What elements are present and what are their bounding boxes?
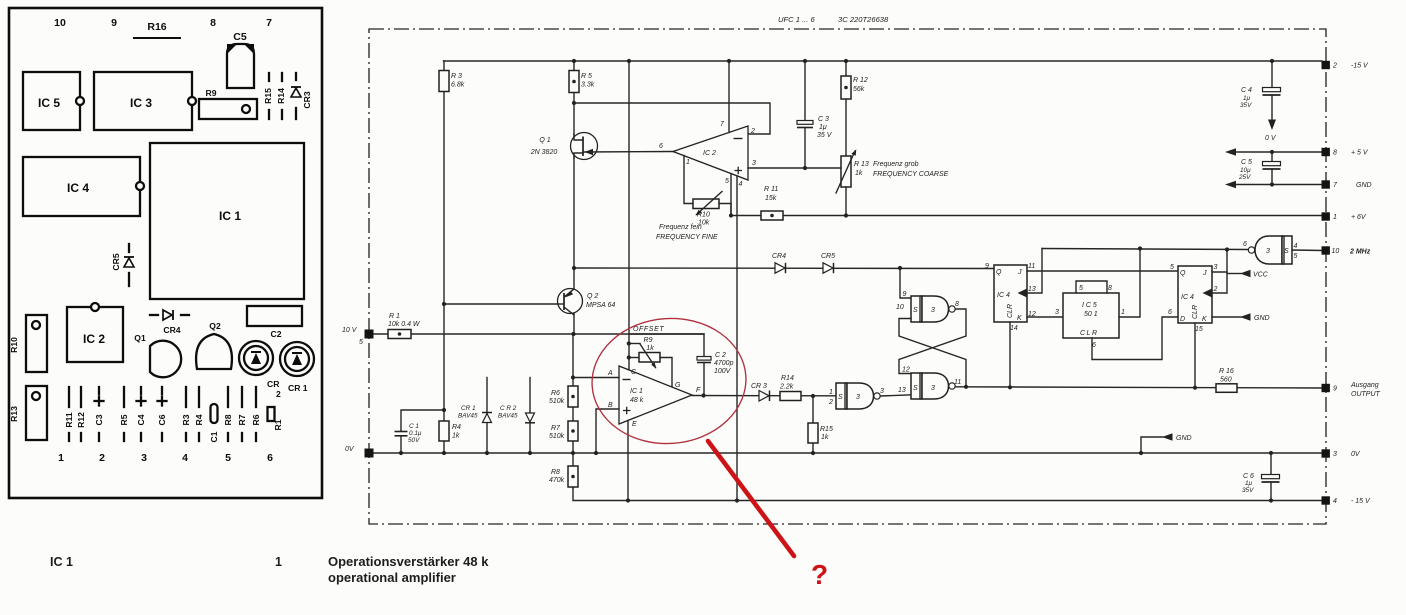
svg-text:Q: Q <box>1180 270 1186 277</box>
svg-text:CR 1: CR 1 <box>288 383 308 393</box>
resistor R10 footprint <box>26 315 47 372</box>
capacitor C4 1u 35V with 0V arrow <box>1271 61 1273 88</box>
junction node 0V / R7 / R8 <box>571 451 575 455</box>
resistor R15 1k <box>812 396 814 453</box>
resistor R14 (vertical silk) <box>281 73 283 81</box>
svg-text:OFFSET: OFFSET <box>633 326 664 333</box>
resistor R6 (vertical silk) <box>255 387 257 407</box>
wire E pin to bottom rail <box>627 421 629 501</box>
diode CR1 (round can) <box>280 342 314 376</box>
wire +5V (pin 8) with arrow <box>1236 151 1322 153</box>
wire Q2 base <box>444 303 562 305</box>
svg-text:IC 1: IC 1 <box>219 209 241 223</box>
diode CR3 <box>759 391 769 402</box>
wire 0V rail <box>369 452 1322 454</box>
svg-text:CR4: CR4 <box>163 325 180 335</box>
junction node Q2 base divider <box>442 302 446 306</box>
ground GND arrow (FF-right K) <box>1212 316 1241 318</box>
svg-text:?: ? <box>811 559 828 590</box>
svg-text:BAV45: BAV45 <box>498 413 518 420</box>
wire GND (pin 7) with arrow <box>1236 184 1322 186</box>
svg-text:2.2k: 2.2k <box>779 384 794 391</box>
svg-text:3.3k: 3.3k <box>581 82 595 89</box>
junction node R9 left <box>627 355 631 359</box>
svg-text:IC 1: IC 1 <box>630 388 643 395</box>
schematic frame (dash-dot border) <box>369 29 1326 524</box>
svg-text:CR 1: CR 1 <box>461 405 476 412</box>
svg-text:CLR: CLR <box>1007 304 1014 318</box>
resistor R1 10k 0.4W <box>388 330 411 339</box>
svg-text:4: 4 <box>1333 498 1337 505</box>
svg-text:1k: 1k <box>452 433 460 440</box>
svg-text:Q2: Q2 <box>209 321 221 331</box>
svg-text:8: 8 <box>955 301 959 308</box>
svg-text:3: 3 <box>141 452 147 464</box>
capacitor C1 0.1u 50V <box>400 436 402 453</box>
resistor R8 470k <box>572 453 574 488</box>
svg-text:510k: 510k <box>549 398 565 405</box>
svg-text:7: 7 <box>1333 182 1338 189</box>
svg-text:470k: 470k <box>549 477 565 484</box>
junction node R9 wiper <box>627 341 631 345</box>
svg-text:Q 1: Q 1 <box>539 137 550 144</box>
svg-text:14: 14 <box>1010 325 1018 332</box>
NAND gate (2MHz output, mirrored) <box>1255 236 1282 264</box>
svg-text:J: J <box>1017 269 1022 276</box>
capacitor C4 (vertical silk) <box>140 387 142 394</box>
PCB board outline <box>9 8 322 498</box>
svg-text:6: 6 <box>659 143 663 150</box>
svg-text:3: 3 <box>856 394 860 401</box>
op-amp IC2 <box>673 126 748 180</box>
junction node R4/C1 <box>442 408 446 412</box>
annotation red ellipse around IC1 <box>588 313 750 448</box>
junction node R5 / IC2 pin2 feedback <box>572 101 576 105</box>
wire R5/Q1/Q2 column <box>573 61 575 334</box>
svg-text:10 V: 10 V <box>342 327 358 334</box>
svg-text:Ausgang: Ausgang <box>1350 382 1379 389</box>
svg-text:R3: R3 <box>181 414 191 425</box>
svg-text:1: 1 <box>686 159 690 166</box>
svg-text:3C 220T26638: 3C 220T26638 <box>838 15 889 24</box>
svg-text:7: 7 <box>266 17 272 29</box>
svg-text:510k: 510k <box>549 433 565 440</box>
wire +6V rail (pin 1) <box>731 215 1322 217</box>
junction node R4 bottom / 0V <box>442 451 446 455</box>
svg-text:C2: C2 <box>271 329 282 339</box>
pin 2 terminal <box>1322 61 1330 69</box>
capacitor C2 footprint <box>247 306 302 326</box>
diode CR4 <box>775 263 785 273</box>
svg-text:Operationsverstärker 48 k: Operationsverstärker 48 k <box>328 554 489 569</box>
wire 2MHz feedback line <box>1042 249 1249 250</box>
svg-text:+ 5 V: + 5 V <box>1351 150 1369 157</box>
svg-text:13: 13 <box>898 387 906 394</box>
svg-text:R16: R16 <box>147 21 166 33</box>
resistor R13 footprint <box>26 386 47 440</box>
svg-text:- 15 V: - 15 V <box>1351 498 1371 505</box>
wire gate to pin 10 <box>1292 249 1322 252</box>
diode CR1 BAV45 <box>486 378 488 454</box>
svg-text:IC 4: IC 4 <box>67 181 89 195</box>
resistor R12 (vertical silk) <box>80 387 82 407</box>
svg-text:VCC: VCC <box>1253 272 1269 279</box>
flip-flop IC4 (left half) <box>994 265 1027 322</box>
svg-text:35V: 35V <box>1242 487 1254 494</box>
svg-text:2: 2 <box>99 452 105 464</box>
annotation red pointer line <box>708 441 794 556</box>
resistor R14 2.2k <box>780 392 801 401</box>
svg-text:R1: R1 <box>273 419 283 430</box>
resistor R12 56k <box>845 61 847 156</box>
svg-text:C 2: C 2 <box>715 352 726 359</box>
IC2 pin 7 <box>728 61 730 133</box>
svg-text:R7: R7 <box>551 425 561 432</box>
junction node R14 / R15 <box>811 394 815 398</box>
svg-text:5: 5 <box>359 339 363 346</box>
svg-text:2 MHz: 2 MHz <box>1349 249 1371 256</box>
svg-text:IC 2: IC 2 <box>83 332 105 346</box>
potentiometer R10 10k <box>693 199 719 209</box>
svg-text:CR4: CR4 <box>772 253 786 260</box>
svg-text:10: 10 <box>896 304 904 311</box>
wire FF-left clock pin 13 <box>1027 249 1042 294</box>
svg-text:11: 11 <box>1028 263 1035 270</box>
svg-text:CR5: CR5 <box>821 253 835 260</box>
capacitor C1 (vertical silk) <box>211 404 218 423</box>
svg-text:G: G <box>675 382 681 389</box>
pin 7 terminal <box>1322 180 1330 188</box>
junction node Q2 collector / R1 wire <box>571 332 575 336</box>
svg-text:S: S <box>913 307 918 314</box>
IC2 pin 5 <box>730 174 732 216</box>
svg-text:5: 5 <box>1170 264 1174 271</box>
wire IC5 pins 5-8 jumper <box>1076 281 1107 293</box>
svg-text:R6: R6 <box>551 390 560 397</box>
resistor R5 3.3k <box>569 71 579 93</box>
svg-text:1: 1 <box>1121 309 1125 316</box>
svg-text:-15 V: -15 V <box>1351 63 1369 70</box>
svg-text:5: 5 <box>1294 253 1298 260</box>
junction node output F / C2 <box>701 393 705 397</box>
svg-text:Q 2: Q 2 <box>587 293 598 300</box>
svg-text:11: 11 <box>954 379 961 386</box>
svg-text:R10: R10 <box>697 212 710 219</box>
svg-text:C1: C1 <box>209 431 219 442</box>
svg-text:R 11: R 11 <box>764 186 778 193</box>
svg-text:Q: Q <box>996 269 1002 276</box>
svg-text:E: E <box>632 421 637 428</box>
svg-text:25V: 25V <box>1238 174 1251 181</box>
svg-text:R9: R9 <box>206 88 217 98</box>
svg-text:R9: R9 <box>644 337 653 344</box>
resistor R6 510k <box>568 386 578 407</box>
wire IC2 pin 2 feedback <box>574 103 770 134</box>
wire B input to 0V <box>596 409 619 453</box>
resistor R7 (vertical silk) <box>241 387 243 407</box>
svg-text:C6: C6 <box>157 414 167 425</box>
IC 3 <box>94 72 192 130</box>
resistor R4 <box>439 421 449 441</box>
svg-text:C5: C5 <box>233 31 247 43</box>
svg-text:CLR: CLR <box>1192 305 1199 319</box>
svg-text:R 13: R 13 <box>854 161 869 168</box>
svg-text:6: 6 <box>1092 342 1096 349</box>
svg-text:3: 3 <box>931 385 935 392</box>
svg-text:C R 2: C R 2 <box>500 405 517 412</box>
IC 1 <box>150 143 304 299</box>
svg-text:R14: R14 <box>781 375 794 382</box>
svg-text:4700p: 4700p <box>714 360 734 367</box>
svg-text:4: 4 <box>182 452 188 464</box>
wire IC5 pin 1 to 2MHz line <box>1119 249 1140 318</box>
pin 9 terminal <box>1322 384 1330 392</box>
svg-text:1: 1 <box>829 389 833 396</box>
svg-text:1: 1 <box>58 452 64 464</box>
NAND gate 2 (latch bottom) <box>911 373 922 399</box>
wire latch cross coupling <box>899 309 966 374</box>
capacitor C2 4700p 100V <box>697 357 711 361</box>
svg-text:9: 9 <box>1333 386 1337 393</box>
svg-text:UFC 1 ... 6: UFC 1 ... 6 <box>778 15 815 24</box>
resistor R8 (vertical silk) <box>227 387 229 407</box>
svg-text:R13: R13 <box>9 406 19 422</box>
svg-text:operational amplifier: operational amplifier <box>328 570 456 585</box>
svg-text:BAV45: BAV45 <box>458 413 478 420</box>
wire output F <box>692 395 836 397</box>
resistor R5 (vertical silk) <box>123 387 125 407</box>
svg-text:1μ: 1μ <box>1245 480 1253 487</box>
svg-text:C 4: C 4 <box>1241 87 1252 94</box>
svg-text:3: 3 <box>1055 309 1059 316</box>
svg-text:Frequenz fein: Frequenz fein <box>659 224 702 231</box>
junction node pin5 / +6V rail <box>729 213 733 217</box>
wire FF-left K to IC5 pin 3 <box>1027 316 1063 318</box>
resistor R11 (vertical silk) <box>68 387 70 407</box>
svg-text:R 5: R 5 <box>581 73 592 80</box>
diode CR2 (round can) <box>239 341 273 375</box>
svg-text:IC 4: IC 4 <box>1181 294 1194 301</box>
svg-text:2: 2 <box>1213 286 1218 293</box>
svg-text:CR3: CR3 <box>302 91 312 108</box>
svg-text:50 1: 50 1 <box>1084 311 1098 318</box>
svg-text:R 1: R 1 <box>389 313 400 320</box>
wire offset to C2 <box>629 334 704 357</box>
wire latch output line to pin 9 OUTPUT <box>955 387 1322 388</box>
wire IC5 pin 6 to FF-right D <box>1092 317 1178 360</box>
svg-text:10k 0.4 W: 10k 0.4 W <box>388 321 421 328</box>
svg-text:R4: R4 <box>452 424 461 431</box>
svg-text:8: 8 <box>210 17 216 29</box>
svg-text:IC 1: IC 1 <box>50 555 73 569</box>
pin 0V terminal <box>365 449 374 458</box>
svg-text:GND: GND <box>1356 182 1372 189</box>
svg-text:2: 2 <box>276 389 281 399</box>
transistor Q1 2N3820 <box>571 133 598 160</box>
capacitor C3 (vertical silk) <box>98 387 100 394</box>
svg-text:0V: 0V <box>345 446 355 453</box>
svg-text:FREQUENCY COARSE: FREQUENCY COARSE <box>873 171 949 178</box>
svg-text:R14: R14 <box>276 88 286 104</box>
svg-text:9: 9 <box>903 291 907 298</box>
diode CR5 <box>823 263 833 273</box>
svg-text:12: 12 <box>902 367 910 374</box>
svg-text:5: 5 <box>725 178 729 185</box>
svg-text:K: K <box>1202 316 1207 323</box>
svg-text:0V: 0V <box>1351 451 1361 458</box>
svg-text:560: 560 <box>1220 377 1232 384</box>
wire FF-left J out to FF-right Q in <box>1027 270 1178 272</box>
svg-text:IC 5: IC 5 <box>38 96 60 110</box>
diode CR4 (horizontal silk) <box>150 314 158 316</box>
svg-text:50V: 50V <box>408 437 420 444</box>
svg-text:Frequenz grob: Frequenz grob <box>873 161 919 168</box>
svg-text:2: 2 <box>828 399 833 406</box>
svg-text:3: 3 <box>1214 264 1218 271</box>
svg-text:6: 6 <box>267 452 273 464</box>
svg-text:0.1μ: 0.1μ <box>409 430 422 437</box>
svg-text:C 5: C 5 <box>1241 159 1252 166</box>
flip-flop IC4 (right half) <box>1178 266 1212 323</box>
svg-text:R11: R11 <box>64 412 74 428</box>
svg-text:1k: 1k <box>646 345 654 352</box>
resistor R11 15k <box>761 211 783 220</box>
diode CR2 BAV45 <box>529 378 531 454</box>
svg-text:4: 4 <box>739 181 743 188</box>
svg-text:OUTPUT: OUTPUT <box>1351 391 1381 398</box>
svg-text:GND: GND <box>1176 435 1192 442</box>
wire FF-right J/clock to 2MHz node <box>1212 271 1227 273</box>
svg-text:CR 3: CR 3 <box>751 383 767 390</box>
svg-text:CR: CR <box>267 379 280 389</box>
svg-text:0 V: 0 V <box>1265 135 1277 142</box>
svg-text:+ 6V: + 6V <box>1351 214 1367 221</box>
svg-text:GND: GND <box>1254 315 1270 322</box>
resistor R15 (vertical silk) <box>268 73 270 81</box>
resistor R3 <box>443 61 445 453</box>
svg-text:R 12: R 12 <box>853 77 868 84</box>
IC2 pin 4 column down to bottom rail <box>736 176 738 501</box>
svg-text:35 V: 35 V <box>817 132 833 139</box>
svg-text:R 16: R 16 <box>1219 368 1234 375</box>
wire FF-left CLR pin 14 to output line <box>1009 322 1011 387</box>
svg-text:10μ: 10μ <box>1240 167 1251 174</box>
svg-text:2N 3820: 2N 3820 <box>530 149 558 156</box>
NAND gate 1 (latch top) <box>911 296 922 322</box>
svg-text:1k: 1k <box>855 170 863 177</box>
svg-text:R6: R6 <box>251 414 261 425</box>
svg-text:56k: 56k <box>853 86 865 93</box>
transistor Q2 MPSA64 <box>558 289 583 314</box>
svg-text:S: S <box>913 385 918 392</box>
svg-text:R4: R4 <box>194 414 204 425</box>
svg-text:C3: C3 <box>94 414 104 425</box>
IC2 pin 3 wire <box>748 167 841 169</box>
junction node A input <box>571 375 575 379</box>
svg-text:R 3: R 3 <box>451 73 462 80</box>
svg-text:5: 5 <box>225 452 231 464</box>
svg-text:3: 3 <box>1266 248 1270 255</box>
pin 4 terminal <box>1322 496 1330 504</box>
svg-text:R8: R8 <box>223 414 233 425</box>
svg-text:D: D <box>1180 316 1185 323</box>
resistor R16 560 <box>1216 384 1237 393</box>
svg-text:A: A <box>607 370 613 377</box>
svg-text:35V: 35V <box>1240 102 1252 109</box>
NAND gate 3 (input) <box>836 383 847 409</box>
svg-text:K: K <box>1017 315 1022 322</box>
ground GND arrow on 0V rail <box>1139 451 1143 455</box>
svg-text:C 3: C 3 <box>818 116 829 123</box>
svg-text:6.8k: 6.8k <box>451 82 465 89</box>
svg-text:IC 3: IC 3 <box>130 96 152 110</box>
pin 1 terminal <box>1322 212 1330 220</box>
svg-text:6: 6 <box>1243 241 1247 248</box>
wire CR4/CR5 coupling <box>574 267 994 270</box>
svg-text:8: 8 <box>1108 285 1112 292</box>
diode CR3 (vertical silk) <box>295 73 297 80</box>
wire -15V bottom rail (pin 4) <box>573 487 1322 501</box>
wire FF-right CLR pin 15 to output line <box>1194 323 1196 388</box>
svg-text:Q1: Q1 <box>134 333 146 343</box>
resistor R3 (vertical silk) <box>185 387 187 407</box>
svg-text:C 1: C 1 <box>409 423 419 430</box>
capacitor C6 (vertical silk) <box>161 387 163 394</box>
potentiometer R13 1k frequency coarse <box>841 156 851 187</box>
svg-text:R12: R12 <box>76 412 86 428</box>
wire NAND3 output to latch pin 13 <box>880 395 911 396</box>
power VCC arrow <box>1227 273 1241 275</box>
svg-text:R7: R7 <box>237 414 247 425</box>
IC5 50? divider <box>1063 293 1119 338</box>
resistor R4 (vertical silk) <box>198 387 200 407</box>
svg-text:CR5: CR5 <box>111 253 121 270</box>
svg-text:8: 8 <box>1333 150 1337 157</box>
svg-text:9: 9 <box>111 17 117 29</box>
svg-text:C 6: C 6 <box>1243 473 1254 480</box>
svg-text:1: 1 <box>275 555 282 569</box>
svg-text:R5: R5 <box>119 414 129 425</box>
svg-text:CLR: CLR <box>1080 330 1099 337</box>
capacitor C6 1u 35V <box>1269 451 1273 455</box>
svg-text:1μ: 1μ <box>819 124 827 131</box>
svg-text:C4: C4 <box>136 414 146 425</box>
svg-text:3: 3 <box>1333 451 1337 458</box>
svg-text:3: 3 <box>752 160 756 167</box>
resistor R7 510k <box>568 421 578 441</box>
svg-text:15: 15 <box>1195 326 1203 333</box>
wire A input <box>573 377 619 379</box>
svg-text:15k: 15k <box>765 195 777 202</box>
potentiometer R9 1k <box>629 343 640 345</box>
wire 10V input through R1 <box>369 333 704 335</box>
svg-text:48 k: 48 k <box>630 397 644 404</box>
wire NAND1 pin 9 <box>900 268 911 298</box>
svg-text:9: 9 <box>985 263 989 270</box>
svg-text:MPSA 64: MPSA 64 <box>586 302 615 309</box>
svg-text:1μ: 1μ <box>1243 95 1251 102</box>
svg-text:4: 4 <box>1294 243 1298 250</box>
IC 4 <box>23 157 140 216</box>
svg-text:5: 5 <box>1079 285 1083 292</box>
junction dots on -15V rail <box>572 59 576 63</box>
svg-text:13: 13 <box>1028 286 1036 293</box>
IC 2 <box>67 307 123 362</box>
IC 5 <box>23 72 80 130</box>
pin 3 terminal <box>1322 449 1330 457</box>
junction node Q1 source / CR4 wire <box>572 266 576 270</box>
svg-text:R15: R15 <box>820 426 833 433</box>
